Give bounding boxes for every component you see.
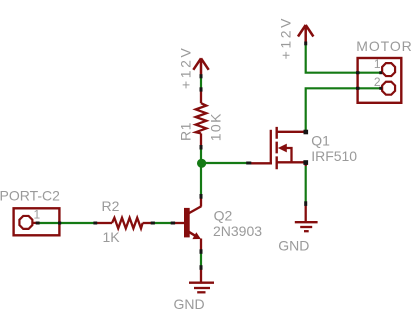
svg-text:PORT-C2: PORT-C2: [0, 188, 60, 204]
svg-text:Q1: Q1: [311, 133, 330, 149]
svg-text:Q2: Q2: [214, 207, 233, 223]
svg-text:+12V: +12V: [278, 16, 294, 60]
svg-text:R2: R2: [102, 198, 120, 214]
svg-text:MOTOR: MOTOR: [356, 38, 412, 54]
svg-text:1K: 1K: [103, 229, 121, 245]
svg-text:GND: GND: [174, 296, 205, 312]
svg-text:1: 1: [374, 57, 381, 71]
svg-text:2N3903: 2N3903: [213, 223, 262, 239]
svg-text:GND: GND: [278, 238, 309, 254]
svg-text:R1: R1: [178, 122, 194, 141]
svg-text:+12V: +12V: [177, 46, 193, 90]
svg-text:10K: 10K: [207, 112, 223, 141]
svg-text:1: 1: [34, 208, 41, 222]
svg-text:IRF510: IRF510: [311, 148, 357, 164]
